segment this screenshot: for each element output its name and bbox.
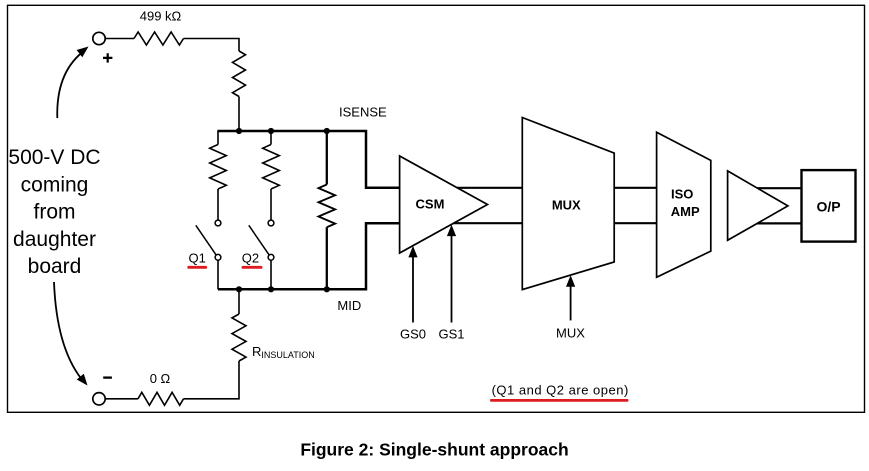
resistor R3 0 Ω <box>138 392 184 405</box>
- terminal <box>93 378 112 405</box>
wire buffer output to O/P <box>735 188 802 223</box>
svg-text:INSULATION: INSULATION <box>261 350 314 360</box>
wire MUX output bus to ISO AMP <box>614 188 656 223</box>
label Q1 <box>189 251 206 266</box>
wire switch Q1 to MID rail <box>217 260 219 289</box>
label Q2 <box>242 251 259 266</box>
switch Q1 (open) <box>196 220 221 260</box>
caption Figure 2: Single-shunt approach <box>300 440 568 460</box>
wire branch1 top <box>217 131 219 145</box>
svg-text:0 Ω: 0 Ω <box>150 371 171 386</box>
svg-text:Q1: Q1 <box>189 251 206 266</box>
wire branch2 top <box>270 131 272 145</box>
svg-text:AMP: AMP <box>671 204 700 219</box>
output block O/P <box>802 170 856 242</box>
resistor R2 (series divider) <box>233 51 246 97</box>
GS0 control arrow <box>408 246 417 323</box>
MUX select arrow <box>566 275 575 320</box>
svg-text:daughter: daughter <box>13 228 96 251</box>
MID rail wire to CSM - input <box>218 223 400 289</box>
GS1 control arrow <box>447 225 456 323</box>
svg-text:ISO: ISO <box>671 187 693 202</box>
value label 0 Ω <box>150 371 171 386</box>
buffer amplifier U4 <box>728 171 788 240</box>
svg-text:499 kΩ: 499 kΩ <box>140 9 182 24</box>
+ terminal <box>93 32 113 62</box>
svg-text:500-V DC: 500-V DC <box>8 146 100 169</box>
resistor shunt <box>319 185 336 228</box>
wire Rinsulation to 0 ohm resistor <box>184 361 240 399</box>
resistor branch2 <box>263 145 280 190</box>
switch Q2 (open) <box>249 220 274 260</box>
wire R2 to ISENSE rail <box>238 97 240 132</box>
label MUX (select) <box>556 326 585 341</box>
resistor R1 499 kΩ <box>134 32 184 45</box>
wire + terminal to R1 <box>105 38 134 40</box>
red underline annotation <box>490 399 629 402</box>
svg-text:coming: coming <box>21 173 89 196</box>
svg-text:MUX: MUX <box>556 326 585 341</box>
svg-text:MID: MID <box>337 298 361 313</box>
label GS0 <box>400 327 426 342</box>
resistor RINSULATION <box>232 314 246 361</box>
annotation arrow to + terminal <box>57 47 88 119</box>
svg-text:from: from <box>34 201 76 224</box>
resistor branch1 <box>210 145 227 190</box>
svg-text:GS0: GS0 <box>400 327 426 342</box>
value label 499 kΩ <box>140 9 182 24</box>
wire R1 to R2 <box>184 39 240 52</box>
wire switch Q2 to MID rail <box>270 260 272 289</box>
ISENSE rail wire to CSM + input <box>217 131 399 188</box>
wire MID to Rinsulation <box>238 289 240 314</box>
label GS1 <box>438 327 464 342</box>
svg-text:Q2: Q2 <box>242 251 259 266</box>
net label ISENSE <box>339 105 387 120</box>
wire branch1 to switch Q1 <box>217 189 219 220</box>
isolation amplifier U3 ISO AMP <box>657 132 711 277</box>
wire 0 ohm to - terminal <box>105 398 138 400</box>
svg-text:ISENSE: ISENSE <box>339 105 387 120</box>
mux U2 MUX <box>522 118 614 290</box>
junction dots ISENSE rail <box>236 128 330 134</box>
svg-text:R: R <box>252 344 261 359</box>
node label: 500-V DC coming from daughter board <box>8 146 100 278</box>
svg-text:Figure 2: Single-shunt approac: Figure 2: Single-shunt approach <box>300 440 568 460</box>
op-amp U1 CSM <box>400 156 488 253</box>
red underline Q1 <box>187 266 207 269</box>
wire shunt branch bottom <box>326 227 328 289</box>
label RINSULATION <box>252 344 315 360</box>
wire branch2 to switch Q2 <box>270 189 272 220</box>
svg-text:O/P: O/P <box>816 199 840 215</box>
svg-text:CSM: CSM <box>416 197 445 212</box>
svg-text:(Q1 and Q2 are open): (Q1 and Q2 are open) <box>492 383 629 398</box>
annotation arrow to - terminal <box>54 282 88 386</box>
net label MID <box>337 298 361 313</box>
svg-text:MUX: MUX <box>552 198 581 213</box>
red underline Q2 <box>242 266 263 269</box>
wire shunt branch top <box>326 131 328 185</box>
svg-text:GS1: GS1 <box>438 327 464 342</box>
wire CSM output bus to MUX <box>443 188 522 223</box>
svg-text:board: board <box>28 255 82 278</box>
annotation (Q1 and Q2 are open) <box>492 383 629 398</box>
junction dots MID rail <box>236 286 330 292</box>
